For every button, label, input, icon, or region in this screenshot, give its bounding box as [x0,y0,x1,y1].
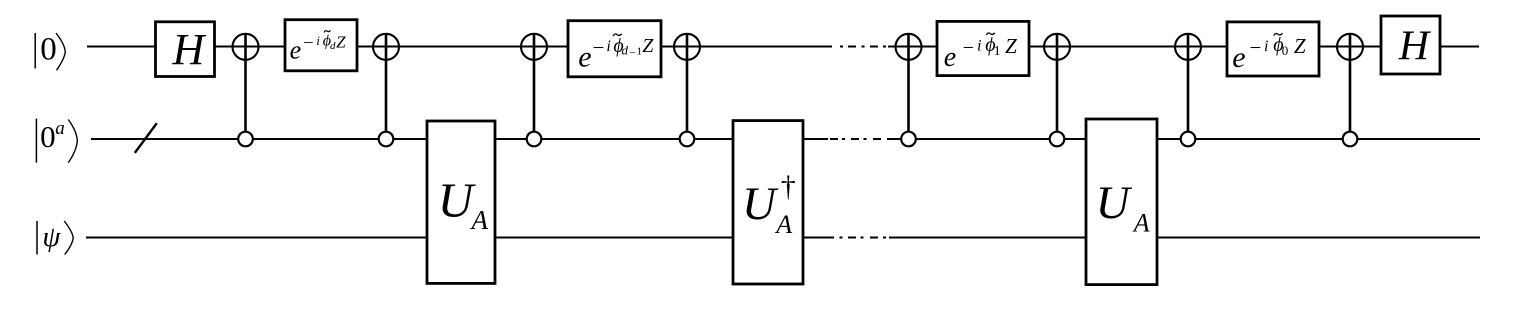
wire ancilla middle dash-dot [830,138,881,140]
svg-text:1: 1 [994,44,1001,59]
ket |0^a> label row2 [36,118,77,163]
svg-text:0: 0 [40,119,56,154]
control vertical line 1 [244,34,247,132]
gate UA-dagger label [742,170,796,239]
cnot target X8 [1337,34,1363,60]
svg-text:0: 0 [1282,43,1289,58]
wire psi bottom solid left [86,237,834,239]
gate P2 label [578,34,654,74]
control vertical line 5 [907,34,910,132]
svg-text:−: − [593,36,605,60]
svg-text:1: 1 [637,46,643,58]
svg-text:i: i [1264,38,1268,55]
open control c7 [1181,132,1196,147]
wire ancilla middle solid left [91,138,828,140]
svg-text:−: − [1250,35,1262,59]
control vertical line 4 [686,34,689,132]
svg-text:†: † [781,170,796,203]
gate H1 box [156,22,215,77]
gate P4 exp(-i phi_0 Z) box [1227,22,1319,76]
wire q0 top dash-dot [840,46,886,48]
svg-text:d: d [330,40,336,52]
control vertical line 6 [1056,34,1059,132]
ket |0> label row1 [35,31,65,70]
open control c3 [527,132,542,147]
gate P3 exp(-i phi_1 Z) box [937,21,1029,75]
svg-text:H: H [1398,23,1432,69]
control vertical line 3 [533,34,536,132]
gate UA2 box [1086,119,1157,285]
control vertical line 7 [1187,34,1190,132]
wire psi bottom solid right [889,237,1480,239]
gate UA2 label [1096,177,1150,238]
gate P1 exp(-i phi_d Z) box [285,20,357,71]
svg-text:Z: Z [642,35,654,57]
wire psi bottom dash-dot [840,237,887,239]
svg-text:e: e [290,36,302,65]
gate H2 box [1381,16,1440,74]
wire ancilla middle solid right [887,138,1480,140]
ket |psi> label row3 [37,221,73,255]
svg-text:i: i [977,37,981,54]
open control c6 [1050,132,1065,147]
svg-text:ψ: ψ [42,221,61,253]
cnot target X5 [896,34,922,60]
cnot target X7 [1175,34,1201,60]
cnot target X4 [674,34,700,60]
control vertical line 2 [385,34,388,132]
svg-text:Z: Z [336,32,346,51]
svg-text:A: A [470,205,489,235]
gate UA1 label [438,172,489,235]
open control c5 [901,132,916,147]
svg-text:Z: Z [1005,34,1017,58]
svg-text:a: a [55,118,64,139]
gate UA-dagger box [733,121,803,284]
open control c2 [379,132,394,147]
svg-text:H: H [172,25,207,74]
bus slash on ancilla wire [135,123,157,153]
svg-text:e: e [944,42,956,73]
svg-text:0: 0 [40,31,57,67]
svg-text:i: i [316,33,320,48]
svg-text:U: U [1096,177,1133,229]
gate P1 label [290,30,347,64]
svg-text:U: U [742,178,779,230]
svg-text:Z: Z [1294,34,1306,58]
cnot target X1 [233,34,259,60]
svg-text:−: − [629,46,636,60]
svg-text:i: i [606,38,610,55]
svg-text:−: − [963,37,974,59]
open control c8 [1343,132,1358,147]
open control c4 [680,132,695,147]
svg-text:A: A [774,210,792,239]
wire q0 top solid right [888,46,1479,48]
svg-text:e: e [1232,41,1245,74]
svg-text:−: − [303,32,313,52]
gate P4 label [1232,33,1306,74]
control vertical line 8 [1349,34,1352,132]
cnot target X3 [521,34,547,60]
cnot target X2 [373,34,399,60]
gate P2 exp(-i phi_d-1 Z) box [568,21,661,77]
svg-text:A: A [1132,209,1150,238]
wire q0 top solid left [87,46,832,48]
open control c1 [238,132,253,147]
svg-text:e: e [578,40,591,73]
svg-text:d: d [622,42,629,57]
gate P3 label [944,33,1017,73]
gate UA1 box [427,121,495,283]
cnot target X6 [1044,34,1070,60]
